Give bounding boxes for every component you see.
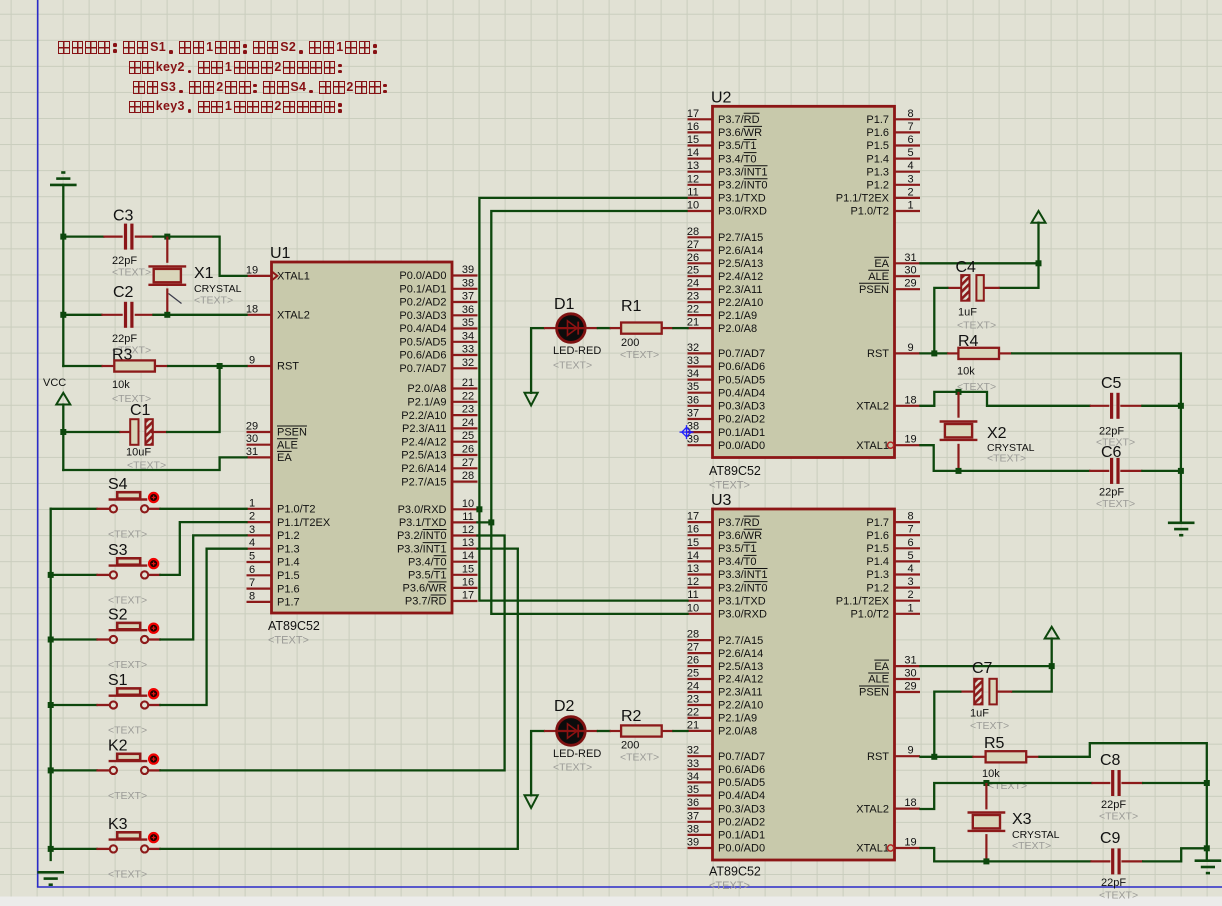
- svg-text:P1.5: P1.5: [866, 140, 889, 152]
- power flag VCC arrow: [56, 393, 70, 405]
- wire VCC to C7 elbow: [1012, 639, 1051, 692]
- svg-text:P2.6/A14: P2.6/A14: [401, 463, 446, 475]
- svg-text:C3: C3: [113, 208, 134, 225]
- IC U2 pin 36 (P0.3/AD3) stub: [688, 405, 713, 407]
- wire D2 to R2: [598, 730, 610, 732]
- IC U3 pin 28 (P2.7/A15) stub: [688, 639, 713, 641]
- IC U1 pin 13 (P3.3/INT1) stub: [452, 547, 478, 549]
- svg-text:C9: C9: [1100, 830, 1121, 847]
- IC U3 pin 24 (P2.3/A11) stub: [688, 691, 713, 693]
- svg-text:34: 34: [687, 368, 699, 380]
- svg-text:39: 39: [687, 837, 699, 849]
- svg-text:11: 11: [687, 589, 698, 601]
- svg-text:37: 37: [687, 810, 699, 822]
- node bus-S1: [48, 702, 54, 708]
- crystal X1 tail diagonal: [169, 294, 182, 304]
- capacitor C1 lead right: [151, 431, 167, 433]
- wire D1 anode to output arrow: [531, 328, 544, 393]
- svg-text:XTAL2: XTAL2: [856, 401, 889, 413]
- svg-text:<TEXT>: <TEXT>: [988, 780, 1027, 792]
- IC U1 pin 30 (ALE) stub: [247, 444, 272, 446]
- capacitor C7 lead left: [960, 690, 975, 692]
- svg-text:29: 29: [246, 421, 258, 433]
- IC U3 pin 21 (P2.0/A8) stub: [688, 730, 713, 732]
- LED D1 lead left: [544, 327, 557, 329]
- IC U2 pin 2 (P1.1/T2EX) stub: [895, 197, 921, 199]
- wire C7 to RST node (U3): [934, 692, 960, 757]
- svg-text:C1: C1: [130, 402, 151, 419]
- LED D2 lead right: [585, 730, 598, 732]
- svg-text:P3.4/T0: P3.4/T0: [718, 556, 757, 568]
- sheet edge strip bottom: [0, 897, 1222, 906]
- IC U3 pin 16 (P3.6/WR) stub: [688, 534, 713, 536]
- svg-text:10: 10: [687, 200, 699, 212]
- IC U2 pin 4 (P1.3) stub: [895, 171, 921, 173]
- svg-text:34: 34: [462, 330, 474, 342]
- IC U1 pin 18 (XTAL2) stub: [247, 314, 272, 316]
- wire bus to K3: [51, 848, 97, 850]
- node line B / U1 pin11: [488, 519, 494, 525]
- svg-text:33: 33: [687, 758, 699, 770]
- IC U2 pin 13 (P3.3/INT1) stub: [688, 171, 713, 173]
- node C3-X1: [164, 234, 170, 240]
- svg-text:C4: C4: [956, 259, 977, 276]
- capacitor C2: [124, 302, 127, 328]
- svg-text:<TEXT>: <TEXT>: [194, 295, 233, 307]
- svg-text:P0.1/AD1: P0.1/AD1: [718, 427, 765, 439]
- node RST-C7 (U3): [931, 754, 937, 760]
- svg-text:XTAL1: XTAL1: [277, 271, 310, 283]
- svg-text:P2.0/A8: P2.0/A8: [718, 726, 757, 738]
- wire C3 to X1 top / XTAL1 corner: [154, 237, 247, 276]
- IC U1 pin 33 (P0.6/AD6) stub: [452, 354, 478, 356]
- svg-text:P1.6: P1.6: [866, 127, 889, 139]
- IC U1 pin 12 (P3.2/INT0) stub: [452, 534, 478, 536]
- svg-text:P3.7/RD: P3.7/RD: [718, 114, 760, 126]
- IC U3 pin 33 (P0.6/AD6) stub: [688, 768, 713, 770]
- crystal X1 top lead: [166, 237, 168, 263]
- resistor R3: [114, 360, 155, 371]
- IC U3 pin 34 (P0.5/AD5) stub: [688, 781, 713, 783]
- svg-text:10k: 10k: [957, 366, 975, 378]
- IC U1 pin 15 (P3.5/T1) stub: [452, 574, 478, 576]
- IC U2 pin 34 (P0.5/AD5) stub: [688, 379, 713, 381]
- IC U1 pin 21 (P2.0/A8) stub: [452, 387, 478, 389]
- svg-text:C2: C2: [113, 284, 134, 301]
- svg-text:<TEXT>: <TEXT>: [1099, 890, 1138, 902]
- svg-text:200: 200: [621, 337, 639, 349]
- IC U3 pin 19 (XTAL1) stub: [895, 847, 921, 849]
- resistor R4 lead left: [947, 352, 959, 354]
- svg-text:X2: X2: [987, 425, 1007, 442]
- svg-text:16: 16: [687, 121, 699, 133]
- svg-text:P1.7: P1.7: [866, 114, 889, 126]
- IC U2 pin 25 (P2.4/A12) stub: [688, 275, 713, 277]
- IC U3 pin 1 (P1.0/T2) stub: [895, 613, 921, 615]
- svg-text:15: 15: [687, 134, 699, 146]
- IC U1 pin 9 (RST) stub: [247, 365, 272, 367]
- svg-text:23: 23: [462, 404, 474, 416]
- wire K2 to U1 pin12 P3.2/INT0: [160, 536, 504, 771]
- svg-text:P2.5/A13: P2.5/A13: [718, 661, 763, 673]
- svg-text:P0.0/AD0: P0.0/AD0: [718, 843, 765, 855]
- svg-text:16: 16: [462, 576, 474, 588]
- svg-text:P3.3/INT1: P3.3/INT1: [718, 166, 768, 178]
- power flag VCC arrow (U3): [1045, 627, 1059, 639]
- IC U2 pin 29 (PSEN) stub: [895, 288, 921, 290]
- svg-text:<TEXT>: <TEXT>: [108, 659, 147, 671]
- capacitor C8 lead right: [1121, 782, 1143, 784]
- svg-text:P0.2/AD2: P0.2/AD2: [718, 817, 765, 829]
- svg-text:<TEXT>: <TEXT>: [1096, 498, 1135, 510]
- IC U1 pin 7 (P1.6) stub: [247, 587, 272, 589]
- resistor R1 lead left: [610, 327, 621, 329]
- IC U1 pin 32 (P0.7/AD7) stub: [452, 367, 478, 369]
- resistor R4: [958, 348, 999, 359]
- svg-text:P1.1/T2EX: P1.1/T2EX: [836, 595, 890, 607]
- wire bus to S3: [51, 574, 97, 576]
- output arrow below D2: [525, 795, 538, 808]
- capacitor C4 lead right: [984, 287, 1000, 289]
- capacitor C3 lead right: [135, 236, 154, 238]
- svg-text:<TEXT>: <TEXT>: [108, 594, 147, 606]
- svg-text:36: 36: [687, 394, 699, 406]
- svg-text:PSEN: PSEN: [859, 687, 889, 699]
- svg-text:R5: R5: [984, 735, 1005, 752]
- svg-text:RST: RST: [867, 751, 889, 763]
- IC U2 pin 26 (P2.5/A13) stub: [688, 262, 713, 264]
- svg-text:15: 15: [462, 563, 474, 575]
- svg-text:ALE: ALE: [868, 271, 889, 283]
- svg-text:P0.5/AD5: P0.5/AD5: [718, 374, 765, 386]
- svg-text:P3.1/TXD: P3.1/TXD: [718, 193, 766, 205]
- switch S4: [96, 508, 110, 510]
- svg-text:P1.2: P1.2: [866, 582, 889, 594]
- capacitor C9 lead right: [1121, 860, 1143, 862]
- IC U3 pin 32 (P0.7/AD7) stub: [688, 755, 713, 757]
- svg-text:3: 3: [907, 576, 913, 588]
- capacitor C3: [124, 224, 127, 250]
- svg-text:PSEN: PSEN: [859, 284, 889, 296]
- IC U3 pin 23 (P2.2/A10) stub: [688, 704, 713, 706]
- power flag VCC arrow (U2): [1032, 211, 1046, 223]
- wire VCC to C1: [63, 431, 119, 433]
- svg-text:XTAL2: XTAL2: [856, 803, 889, 815]
- wire S4 to U1 pin1: [160, 508, 246, 510]
- IC U2 pin 33 (P0.6/AD6) stub: [688, 365, 713, 367]
- svg-text:31: 31: [904, 252, 916, 264]
- svg-text:S3: S3: [108, 542, 128, 559]
- svg-text:P3.7/RD: P3.7/RD: [405, 596, 447, 608]
- capacitor C2 lead left: [101, 314, 122, 316]
- svg-text:5: 5: [249, 551, 255, 563]
- svg-text:P2.4/A12: P2.4/A12: [718, 271, 763, 283]
- svg-text:13: 13: [687, 160, 699, 172]
- svg-text:RST: RST: [277, 361, 299, 373]
- IC U3 pin 35 (P0.4/AD4) stub: [688, 794, 713, 796]
- resistor R2 lead right: [662, 730, 674, 732]
- svg-text:35: 35: [462, 317, 474, 329]
- wire R5 to right rail (over top): [1040, 743, 1207, 861]
- wire XTAL1(U3) down to C9 row: [921, 848, 1091, 861]
- resistor R3 lead left: [102, 365, 114, 367]
- svg-text:LED-RED: LED-RED: [553, 345, 601, 357]
- svg-text:13: 13: [687, 563, 699, 575]
- origin marker near U2 pin38: [680, 425, 694, 439]
- IC U1 pin 36 (P0.3/AD3) stub: [452, 314, 478, 316]
- svg-text:P0.3/AD3: P0.3/AD3: [718, 803, 765, 815]
- svg-text:21: 21: [462, 377, 474, 389]
- IC U2 pin 3 (P1.2) stub: [895, 184, 921, 186]
- wire U1 pin10 tap: [478, 508, 480, 510]
- svg-text:<TEXT>: <TEXT>: [1012, 840, 1051, 852]
- svg-text:P1.0/T2: P1.0/T2: [277, 504, 316, 516]
- svg-text:10uF: 10uF: [126, 447, 151, 459]
- IC U2 XTAL1 clock marker: [888, 442, 894, 448]
- svg-text:6: 6: [907, 134, 913, 146]
- IC U1 pin 4 (P1.3) stub: [247, 548, 272, 550]
- node X3 top: [983, 780, 989, 786]
- svg-text:P1.2: P1.2: [277, 530, 300, 542]
- svg-text:P1.0/T2: P1.0/T2: [850, 609, 889, 621]
- svg-text:P3.5/T1: P3.5/T1: [718, 140, 757, 152]
- svg-text:P1.1/T2EX: P1.1/T2EX: [836, 193, 890, 205]
- capacitor C5: [1110, 393, 1113, 419]
- svg-text:R4: R4: [958, 333, 979, 350]
- IC U2 pin 27 (P2.6/A14) stub: [688, 249, 713, 251]
- IC U1 XTAL1 clock marker: [272, 272, 277, 280]
- wire S2 to U1 pin3: [160, 535, 246, 639]
- svg-text:27: 27: [687, 239, 699, 251]
- svg-text:P3.2/INT0: P3.2/INT0: [718, 180, 768, 192]
- svg-text:<TEXT>: <TEXT>: [112, 267, 151, 279]
- svg-text:CRYSTAL: CRYSTAL: [194, 283, 242, 295]
- IC U3 pin 39 (P0.0/AD0) stub: [688, 847, 713, 849]
- wire bus to K2: [51, 769, 97, 771]
- wire bus to S2: [51, 638, 97, 640]
- IC U1 pin 35 (P0.4/AD4) stub: [452, 327, 478, 329]
- wire RST(U3) to R5: [921, 756, 973, 758]
- IC U3 pin 10 (P3.0/RXD) stub: [688, 613, 713, 615]
- svg-text:P1.0/T2: P1.0/T2: [850, 206, 889, 218]
- svg-text:P3.4/T0: P3.4/T0: [718, 153, 757, 165]
- LED D1 lead right: [585, 327, 598, 329]
- svg-text:6: 6: [907, 537, 913, 549]
- svg-text:P0.1/AD1: P0.1/AD1: [718, 830, 765, 842]
- IC U2 pin 18 (XTAL2) stub: [895, 405, 921, 407]
- svg-text:P1.4: P1.4: [277, 557, 300, 569]
- svg-text:PSEN: PSEN: [277, 427, 307, 439]
- LED D1 (LED-RED): [557, 314, 586, 343]
- IC U3 pin 8 (P1.7) stub: [895, 521, 921, 523]
- wire C4 to RST node (U2): [934, 288, 947, 354]
- svg-text:P3.6/WR: P3.6/WR: [402, 583, 446, 595]
- svg-text:S2: S2: [108, 607, 128, 624]
- svg-text:<TEXT>: <TEXT>: [957, 320, 996, 332]
- IC U1 pin 16 (P3.6/WR) stub: [452, 587, 478, 589]
- capacitor C7 (1uF electrolytic): [974, 679, 982, 705]
- IC U3 pin 7 (P1.6) stub: [895, 534, 921, 536]
- capacitor C6 lead right: [1120, 470, 1142, 472]
- IC U2 pin 14 (P3.4/T0) stub: [688, 158, 713, 160]
- svg-text:29: 29: [904, 278, 916, 290]
- svg-text:37: 37: [687, 408, 699, 420]
- node C2-X1: [164, 312, 170, 318]
- crystal X2 top lead: [957, 392, 959, 418]
- svg-text:XTAL1: XTAL1: [856, 440, 889, 452]
- IC U3 pin 15 (P3.5/T1) stub: [688, 547, 713, 549]
- IC U2 pin 30 (ALE) stub: [895, 275, 921, 277]
- svg-text:30: 30: [246, 433, 258, 445]
- IC U3 pin 4 (P1.3) stub: [895, 573, 921, 575]
- wire switch ground bus: [50, 509, 52, 860]
- resistor R1: [621, 323, 662, 334]
- svg-text:21: 21: [687, 719, 699, 731]
- svg-text:EA: EA: [874, 258, 889, 270]
- svg-text:P2.2/A10: P2.2/A10: [401, 410, 446, 422]
- IC U2 pin 38 (P0.1/AD1) stub: [688, 431, 713, 433]
- svg-text:ALE: ALE: [868, 674, 889, 686]
- sheet border blue vertical: [37, 0, 39, 887]
- svg-text:17: 17: [687, 108, 699, 120]
- IC U3 pin 31 (EA) stub: [895, 665, 921, 667]
- svg-text:D1: D1: [554, 296, 575, 313]
- IC U3 pin 37 (P0.2/AD2) stub: [688, 821, 713, 823]
- IC U3 XTAL1 clock marker: [888, 845, 894, 851]
- svg-text:<TEXT>: <TEXT>: [709, 880, 750, 892]
- LED D2 lead left: [544, 730, 557, 732]
- svg-text:36: 36: [687, 797, 699, 809]
- svg-text:22: 22: [687, 304, 699, 316]
- node EA-VCC (U3): [1049, 663, 1055, 669]
- svg-text:<TEXT>: <TEXT>: [553, 360, 592, 372]
- svg-text:6: 6: [249, 564, 255, 576]
- node bus-K2: [48, 767, 54, 773]
- IC U1 pin 24 (P2.3/A11) stub: [452, 427, 478, 429]
- IC U3 pin 26 (P2.5/A13) stub: [688, 665, 713, 667]
- svg-text:<TEXT>: <TEXT>: [709, 480, 750, 492]
- IC U3 pin 14 (P3.4/T0) stub: [688, 560, 713, 562]
- svg-text:10: 10: [687, 602, 699, 614]
- node X2 bottom: [956, 468, 962, 474]
- svg-text:RST: RST: [867, 348, 889, 360]
- IC U1 pin 25 (P2.4/A12) stub: [452, 441, 478, 443]
- wire D1 to R1: [598, 327, 610, 329]
- svg-text:XTAL2: XTAL2: [277, 310, 310, 322]
- svg-text:ALE: ALE: [277, 439, 298, 451]
- svg-text:1uF: 1uF: [958, 307, 977, 319]
- svg-text:23: 23: [687, 291, 699, 303]
- IC U1 pin 6 (P1.5) stub: [247, 574, 272, 576]
- svg-text:P2.7/A15: P2.7/A15: [401, 476, 446, 488]
- svg-text:10k: 10k: [112, 379, 130, 391]
- svg-text:28: 28: [687, 226, 699, 238]
- IC U2 pin 7 (P1.6) stub: [895, 131, 921, 133]
- svg-text:P3.1/TXD: P3.1/TXD: [399, 517, 447, 529]
- IC U1 pin 38 (P0.1/AD1) stub: [452, 288, 478, 290]
- svg-text:24: 24: [462, 417, 474, 429]
- IC U2 pin 17 (P3.7/RD) stub: [688, 118, 713, 120]
- wire S3 to U1 pin2: [160, 522, 246, 575]
- svg-text:31: 31: [904, 655, 916, 667]
- IC U3 pin 27 (P2.6/A14) stub: [688, 652, 713, 654]
- resistor R5 lead right: [1026, 756, 1040, 758]
- IC U3 pin 2 (P1.1/T2EX) stub: [895, 600, 921, 602]
- svg-text:S4: S4: [108, 476, 128, 493]
- svg-text:C8: C8: [1100, 752, 1121, 769]
- svg-text:29: 29: [904, 681, 916, 693]
- svg-text:P1.7: P1.7: [866, 517, 889, 529]
- svg-text:EA: EA: [277, 452, 292, 464]
- wire K3 to U1 pin13 P3.3/INT1: [160, 549, 517, 849]
- svg-text:P0.3/AD3: P0.3/AD3: [399, 310, 446, 322]
- svg-text:18: 18: [904, 394, 916, 406]
- wire C9 up to ground node: [1143, 848, 1207, 861]
- node RST-C4 (U2): [931, 350, 937, 356]
- IC U3 pin 25 (P2.4/A12) stub: [688, 678, 713, 680]
- node rail-ground (U3): [1204, 845, 1210, 851]
- svg-text:<TEXT>: <TEXT>: [620, 752, 659, 764]
- capacitor C6: [1110, 458, 1113, 484]
- IC U1 pin 27 (P2.6/A14) stub: [452, 467, 478, 469]
- svg-text:C5: C5: [1101, 375, 1122, 392]
- capacitor C3 lead left: [103, 236, 122, 238]
- IC U2 AT89C52 body: [713, 106, 895, 457]
- svg-text:P2.3/A11: P2.3/A11: [402, 423, 446, 435]
- node RST-C1: [217, 363, 223, 369]
- svg-text:P1.6: P1.6: [866, 530, 889, 542]
- svg-text:3: 3: [249, 524, 255, 536]
- svg-text:K2: K2: [108, 737, 128, 754]
- IC U1 pin 23 (P2.2/A10) stub: [452, 414, 478, 416]
- svg-text:<TEXT>: <TEXT>: [1099, 811, 1138, 823]
- wire S1 to U1 pin4: [160, 549, 246, 705]
- svg-text:P1.1/T2EX: P1.1/T2EX: [277, 517, 331, 529]
- svg-text:23: 23: [687, 694, 699, 706]
- IC U1 pin 2 (P1.1/T2EX) stub: [247, 521, 272, 523]
- svg-text:200: 200: [621, 740, 639, 752]
- svg-text:38: 38: [687, 421, 699, 433]
- svg-text:35: 35: [687, 381, 699, 393]
- switch S3: [96, 574, 110, 576]
- crystal X3 bottom lead: [985, 834, 987, 861]
- capacitor C4 lead left: [947, 287, 961, 289]
- svg-text:P2.3/A11: P2.3/A11: [718, 284, 762, 296]
- wire C3 row: [63, 235, 103, 237]
- IC U2 pin 32 (P0.7/AD7) stub: [688, 352, 713, 354]
- ground bottom-left: [37, 871, 64, 874]
- IC U3 pin 36 (P0.3/AD3) stub: [688, 807, 713, 809]
- svg-text:P0.4/AD4: P0.4/AD4: [399, 323, 446, 335]
- svg-text:P3.0/RXD: P3.0/RXD: [718, 609, 767, 621]
- svg-text:4: 4: [907, 563, 913, 575]
- wire XTAL2(U2) hump over X2: [921, 392, 1090, 406]
- IC U1 pin 37 (P0.2/AD2) stub: [452, 301, 478, 303]
- node VCC-C1: [60, 429, 66, 435]
- IC U2 pin 19 (XTAL1) stub: [895, 444, 921, 446]
- svg-text:P1.3: P1.3: [866, 569, 889, 581]
- svg-text:27: 27: [687, 642, 699, 654]
- capacitor C9: [1111, 848, 1114, 874]
- svg-text:36: 36: [462, 304, 474, 316]
- svg-text:<TEXT>: <TEXT>: [108, 790, 147, 802]
- svg-text:1uF: 1uF: [970, 708, 989, 720]
- svg-text:10k: 10k: [982, 768, 1000, 780]
- svg-text:P1.5: P1.5: [866, 543, 889, 555]
- svg-text:19: 19: [904, 434, 916, 446]
- wire C5 to right rail: [1142, 405, 1181, 407]
- svg-text:P2.6/A14: P2.6/A14: [718, 648, 763, 660]
